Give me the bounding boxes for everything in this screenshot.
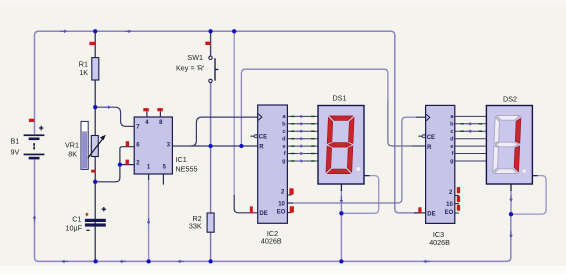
svg-text:f: f [284, 151, 286, 157]
svg-text:R: R [427, 145, 432, 151]
svg-text:9V: 9V [11, 148, 20, 157]
svg-text:4026B: 4026B [429, 238, 450, 247]
svg-text:10: 10 [278, 202, 285, 208]
svg-text:1K: 1K [79, 68, 88, 77]
svg-text:10: 10 [446, 202, 453, 208]
svg-text:CE: CE [259, 135, 267, 141]
svg-text:10µF: 10µF [65, 224, 82, 233]
svg-text:e: e [450, 144, 453, 150]
svg-text:f: f [452, 151, 454, 157]
svg-text:C1: C1 [72, 215, 81, 224]
svg-text:8K: 8K [68, 150, 77, 159]
svg-text:g: g [282, 159, 286, 165]
svg-text:e: e [282, 144, 285, 150]
svg-text:R: R [259, 145, 264, 151]
svg-text:EO: EO [277, 210, 286, 216]
svg-text:c: c [282, 129, 285, 135]
svg-text:g: g [450, 159, 454, 165]
svg-text:SW1: SW1 [187, 53, 203, 62]
svg-text:d: d [450, 136, 454, 142]
svg-text:DS2: DS2 [503, 95, 517, 104]
svg-text:Key = 'R': Key = 'R' [176, 64, 205, 73]
svg-text:NE555: NE555 [176, 165, 198, 174]
svg-text:d: d [282, 136, 286, 142]
svg-text:4026B: 4026B [261, 237, 282, 246]
svg-text:EO: EO [445, 210, 454, 216]
svg-text:33K: 33K [189, 222, 202, 231]
svg-text:b: b [450, 122, 454, 128]
svg-text:b: b [282, 122, 286, 128]
svg-text:B1: B1 [11, 137, 20, 146]
svg-text:DS1: DS1 [333, 94, 347, 103]
svg-text:VR1: VR1 [65, 141, 79, 150]
svg-text:CE: CE [427, 135, 435, 141]
svg-text:IC1: IC1 [176, 155, 187, 164]
svg-text:c: c [450, 129, 453, 135]
svg-text:DE: DE [259, 211, 267, 217]
svg-text:DE: DE [427, 211, 435, 217]
